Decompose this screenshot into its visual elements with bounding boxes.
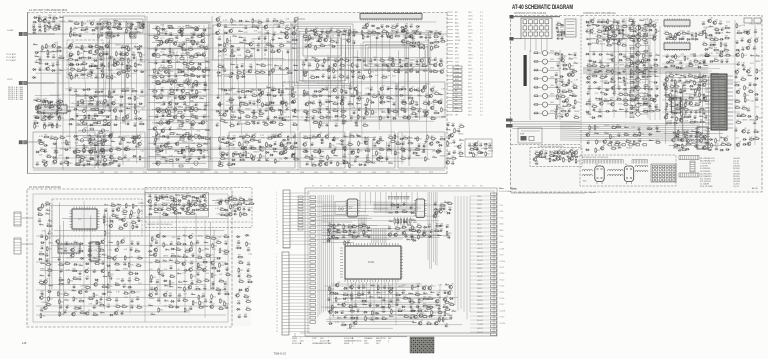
resistor R378 — [281, 118, 287, 121]
wire — [122, 135, 124, 165]
svg-text:GRY: GRY — [468, 101, 473, 103]
resistor R260 — [386, 95, 392, 98]
capacitor C46 — [100, 89, 104, 93]
diode D178 — [585, 53, 590, 55]
resistor R8 — [96, 22, 102, 25]
svg-text:P1-19: P1-19 — [500, 317, 505, 319]
resistor R534 — [693, 75, 699, 78]
node N131 label — [403, 36, 407, 38]
resistor R303 — [329, 142, 334, 148]
resistor R325 — [349, 163, 354, 169]
inductor L180 — [648, 71, 652, 73]
diode D81 — [271, 89, 276, 91]
inductor L178 — [632, 62, 636, 64]
svg-text:GRN: GRN — [468, 58, 473, 60]
capacitor C131 — [256, 48, 260, 52]
resistor R16 — [72, 33, 78, 36]
inductor L133 — [241, 101, 245, 103]
capacitor C165 — [320, 29, 324, 33]
node N133 label — [108, 62, 112, 64]
resistor R152 — [266, 42, 272, 45]
inductor L191 — [680, 75, 684, 77]
inductor L162 — [573, 87, 577, 89]
capacitor C70 — [102, 163, 106, 167]
wire — [587, 24, 656, 26]
resistor R257 — [350, 94, 356, 97]
node N143 label — [343, 110, 347, 112]
svg-text:P15: P15 — [432, 186, 435, 188]
node N52 label — [190, 128, 194, 130]
node N46 label — [190, 101, 194, 103]
inductor L121 — [93, 54, 97, 56]
resistor R38 — [126, 64, 131, 70]
diode D102 — [415, 71, 420, 73]
svg-text:AT-40: AT-40 — [752, 187, 758, 190]
inductor L76 — [225, 93, 229, 95]
svg-text:15. PLL UNIT (X50-2070-00): 15. PLL UNIT (X50-2070-00) — [29, 186, 61, 189]
node N74 label — [219, 89, 223, 91]
resistor R379 — [356, 90, 361, 96]
diode D52 — [65, 157, 70, 159]
svg-text:T568-N 2/2: T568-N 2/2 — [274, 353, 287, 356]
svg-text:BLK: BLK — [468, 65, 472, 67]
transistor Q86 — [419, 57, 424, 62]
svg-text:GRD2: GRD2 — [477, 204, 482, 206]
resistor R46 — [105, 75, 111, 78]
diode D184 — [618, 59, 623, 61]
inductor L5 — [137, 21, 141, 23]
capacitor C390 — [665, 54, 669, 58]
resistor R399 — [402, 136, 408, 139]
svg-text:LCD18: LCD18 — [500, 310, 506, 312]
resistor R388 — [320, 121, 325, 127]
resistor R415 — [112, 159, 118, 162]
transistor Q85 — [307, 43, 312, 48]
resistor R491 — [637, 69, 643, 72]
node N83 label — [293, 136, 297, 138]
capacitor C129 — [256, 43, 260, 47]
transistor Q23 — [137, 141, 142, 146]
transformer T12 — [114, 22, 120, 28]
capacitor C386 — [690, 33, 694, 37]
svg-text:P2-17: P2-17 — [500, 304, 505, 306]
resistor R353 — [102, 73, 107, 79]
svg-text:20: 20 — [276, 315, 278, 317]
transistor Q93 — [409, 67, 414, 72]
svg-text:SQ: SQ — [455, 93, 458, 95]
transistor Q167 relay driver — [533, 102, 560, 107]
transistor Q149 — [376, 156, 381, 161]
resistor R306 — [395, 141, 401, 144]
wire run — [41, 69, 431, 71]
transistor Q76 — [279, 150, 284, 155]
capacitor C324 — [452, 140, 456, 144]
resistor R433 — [562, 63, 568, 66]
node filter section 8 — [152, 118, 206, 129]
capacitor C30 — [120, 45, 124, 49]
node N61 label — [231, 25, 236, 27]
svg-text:P6: P6 — [360, 186, 362, 188]
connector RX output — [510, 37, 514, 41]
resistor R318 — [327, 155, 332, 161]
svg-text:7: 7 — [276, 273, 277, 275]
inductor L145 — [260, 146, 264, 148]
capacitor C22 — [116, 33, 120, 37]
diode D78 — [223, 89, 228, 91]
resistor R482 — [586, 63, 592, 66]
capacitor C374 — [643, 86, 647, 90]
resistor R472 — [642, 34, 648, 37]
wire — [401, 132, 403, 164]
diode D145 — [269, 121, 274, 123]
node N31 label — [75, 143, 79, 145]
capacitor C209 — [325, 107, 329, 111]
node N45 label — [156, 103, 161, 105]
inductor L120 — [122, 46, 126, 48]
node relay matrix block — [521, 18, 552, 39]
diode D89 — [273, 116, 278, 118]
svg-text:22: 22 — [276, 321, 278, 323]
node IF stack column — [76, 96, 111, 165]
svg-text:TO J3 ANT: TO J3 ANT — [6, 59, 17, 62]
wire partition — [297, 16, 299, 170]
transistor Q38 — [186, 80, 191, 85]
capacitor C29 — [38, 67, 42, 71]
resistor R398 — [390, 139, 396, 142]
resistor R240 — [421, 63, 427, 66]
diode D143 — [278, 109, 283, 111]
transistor Q191 — [634, 96, 639, 101]
diode D205 — [598, 115, 603, 117]
node N116 label — [348, 121, 352, 123]
inductor L160 — [574, 62, 578, 64]
transistor Q70 — [222, 112, 227, 117]
node N7 label — [91, 33, 95, 35]
svg-text:11: 11 — [276, 224, 278, 226]
capacitor C326 — [452, 150, 456, 154]
resistor R309 — [313, 149, 319, 152]
capacitor C316 — [472, 143, 476, 147]
resistor R47 — [35, 98, 41, 101]
node N173 label — [614, 64, 618, 66]
svg-text:7: 7 — [276, 211, 277, 213]
capacitor C253 — [395, 23, 399, 27]
resistor R189 — [278, 122, 284, 125]
resistor R486 — [653, 63, 659, 66]
resistor R166 — [287, 71, 293, 74]
resistor R442 — [561, 90, 567, 93]
diode D8 — [35, 52, 40, 54]
node N84 label — [232, 141, 236, 143]
capacitor C329 — [556, 29, 560, 33]
resistor R315 — [414, 147, 420, 150]
inductor L50 — [204, 143, 208, 145]
node N48 label — [196, 109, 201, 111]
wire run — [44, 119, 418, 121]
node N47 label — [155, 109, 160, 111]
node N81 label — [285, 121, 289, 123]
wire — [223, 29, 225, 115]
svg-text:GRY: GRY — [468, 79, 473, 81]
resistor R364 — [165, 120, 171, 123]
capacitor C95 — [162, 102, 166, 106]
resistor R75 — [115, 115, 120, 121]
capacitor C392 — [679, 61, 683, 65]
capacitor C229 — [401, 142, 405, 146]
wire drop — [601, 18, 603, 118]
svg-text:DIM18: DIM18 — [477, 268, 482, 270]
resistor R462 — [622, 24, 628, 27]
resistor R143 — [252, 18, 257, 24]
transistor Q94 — [439, 68, 444, 73]
resistor R282 — [441, 107, 446, 113]
transformer T13 — [126, 22, 132, 28]
resistor R381 — [367, 98, 372, 104]
transistor Q69 — [229, 105, 234, 110]
transistor Q175 — [610, 23, 615, 28]
diode D154 — [282, 139, 287, 141]
wire — [224, 119, 293, 121]
capacitor C196 — [351, 74, 355, 78]
inductor L168 — [629, 28, 633, 30]
transistor Q200 driver — [629, 50, 648, 57]
diode D11 — [51, 69, 56, 71]
capacitor C275 — [179, 135, 183, 139]
inductor L153 — [488, 147, 492, 149]
transistor Q11 — [94, 48, 99, 53]
diode D159 — [231, 163, 236, 165]
inductor L68 — [274, 65, 278, 67]
transistor Q135 — [178, 94, 183, 99]
transistor Q155 — [100, 147, 105, 152]
wire — [614, 29, 616, 96]
wire — [230, 36, 232, 128]
node scan tint B — [511, 16, 761, 191]
resistor R201 — [240, 145, 246, 148]
capacitor C270 — [180, 53, 184, 57]
transistor Q102 — [379, 94, 384, 99]
diode D167 — [479, 152, 484, 154]
resistor R298 — [394, 134, 399, 140]
resistor R385 — [387, 108, 392, 114]
resistor R391 — [270, 135, 276, 138]
diode D17 — [87, 57, 92, 59]
resistor R455 — [607, 19, 612, 25]
capacitor C364 — [649, 65, 653, 69]
capacitor C91 — [153, 94, 157, 98]
capacitor C355 — [592, 52, 596, 56]
transistor Q197 driver — [629, 25, 648, 32]
capacitor C290 — [305, 111, 309, 115]
node N29 label — [126, 136, 130, 138]
wire — [267, 33, 269, 121]
resistor R359 — [155, 81, 161, 84]
transistor Q152 — [132, 135, 137, 140]
resistor R310 — [319, 148, 324, 154]
transistor Q33 — [204, 45, 209, 50]
transistor Q79 — [312, 28, 317, 33]
svg-text:LED21: LED21 — [477, 280, 483, 282]
capacitor C213 — [311, 116, 315, 120]
resistor R154 — [231, 48, 236, 54]
transistor Q16 — [113, 107, 118, 112]
capacitor C136 — [235, 65, 239, 69]
node N157 label — [558, 68, 562, 70]
node block T13 — [398, 132, 445, 168]
node N120 label — [432, 151, 437, 153]
capacitor C96 — [183, 102, 187, 106]
inductor L13 — [35, 61, 39, 63]
capacitor C69 — [82, 163, 86, 167]
diode D132 — [386, 36, 391, 38]
IC U2 logic — [608, 29, 623, 41]
capacitor C23 — [38, 57, 42, 61]
resistor R450 — [560, 109, 566, 112]
capacitor C180 — [433, 57, 437, 61]
IC U4 driver array — [664, 42, 690, 52]
svg-text:P2-15: P2-15 — [500, 292, 505, 294]
transistor Q180 — [604, 26, 609, 31]
inductor L71 — [294, 69, 298, 71]
diode D35 — [67, 110, 72, 112]
wire — [408, 136, 410, 166]
resistor R1 — [52, 16, 58, 19]
svg-text:11: 11 — [276, 286, 278, 288]
wire — [303, 95, 430, 97]
capacitor C16 — [100, 27, 104, 31]
node antenna symbol — [294, 17, 305, 21]
transistor Q34 — [201, 51, 206, 56]
svg-text:P2: P2 — [328, 186, 330, 188]
diode D206 — [678, 38, 683, 40]
node block T relay drv — [565, 19, 576, 37]
resistor R277 — [388, 108, 393, 114]
transistor Q186 — [611, 57, 616, 62]
resistor R217 — [349, 29, 354, 35]
inductor L175 — [612, 43, 616, 45]
resistor R89 — [93, 143, 99, 146]
resistor R446 — [571, 94, 577, 97]
node N89 label — [253, 151, 258, 153]
inductor L93 — [364, 64, 368, 66]
inductor L101 — [439, 93, 443, 95]
resistor R56 — [48, 115, 54, 118]
inductor L113 — [433, 156, 437, 158]
inductor L139 — [388, 87, 392, 89]
resistor R156 — [270, 49, 276, 52]
svg-text:1: 1 — [276, 254, 277, 256]
resistor R305 — [358, 141, 363, 147]
capacitor C241 — [407, 156, 411, 160]
resistor R94 — [46, 154, 52, 157]
resistor R222 — [329, 39, 335, 42]
capacitor C56 — [75, 114, 79, 118]
capacitor C98 — [204, 103, 208, 107]
node N2 label — [38, 32, 42, 34]
resistor R290 — [312, 120, 318, 123]
capacitor C60 — [102, 134, 106, 138]
resistor R268 — [401, 101, 407, 104]
capacitor C119 — [256, 25, 260, 29]
node N127 label — [403, 35, 407, 37]
inductor L4 — [114, 20, 118, 22]
wire — [270, 40, 272, 106]
diode D56 — [86, 163, 91, 165]
capacitor C156 — [256, 121, 260, 125]
transistor Q101 — [430, 87, 435, 92]
diode D136 — [202, 29, 207, 31]
wire — [77, 57, 130, 59]
transistor Q84 — [346, 37, 351, 42]
diode D164 — [54, 151, 59, 153]
capacitor C384 — [624, 109, 628, 113]
diode D36 — [73, 108, 78, 110]
capacitor C346 — [628, 25, 632, 29]
wire — [97, 27, 99, 111]
capacitor C399 — [678, 78, 682, 82]
inductor L177 — [656, 54, 660, 56]
capacitor C72 — [155, 26, 159, 30]
svg-text:12: 12 — [276, 289, 278, 291]
capacitor C117 — [224, 24, 228, 28]
capacitor C111 — [183, 155, 187, 159]
resistor R92 — [103, 149, 108, 155]
resistor R211 — [293, 157, 299, 160]
diode D202 — [629, 111, 634, 113]
resistor R357 — [199, 44, 205, 47]
diode D200 — [585, 111, 590, 113]
capacitor C245 — [413, 31, 417, 35]
wire — [90, 136, 92, 159]
capacitor C10 — [38, 28, 42, 32]
resistor R495 — [604, 81, 610, 84]
diode D144 — [291, 109, 296, 111]
resistor R395 — [251, 154, 256, 160]
capacitor C158 — [232, 136, 236, 140]
resistor R81 — [53, 136, 59, 139]
diode D95 — [231, 159, 236, 161]
transistor Q17 — [125, 113, 130, 118]
wire — [594, 111, 655, 113]
inductor L30 — [127, 142, 131, 144]
resistor R224 — [319, 43, 325, 46]
node block T6 — [265, 25, 298, 60]
resistor R131 — [169, 109, 174, 115]
capacitor C357 — [623, 54, 627, 58]
diode D153 — [230, 138, 235, 140]
capacitor C340 — [567, 109, 571, 113]
node N13 label — [102, 74, 106, 76]
resistor R251 — [381, 75, 387, 78]
transistor Q37 — [173, 78, 178, 83]
capacitor C352 — [612, 37, 616, 41]
node bottom text row A — [100, 172, 433, 174]
node N163 label — [638, 29, 642, 31]
inductor L42 — [177, 68, 181, 70]
node N126 label — [425, 30, 430, 32]
node block T11 — [300, 132, 345, 168]
resistor R453 — [597, 20, 603, 23]
capacitor C21 — [112, 34, 116, 38]
diode D20 — [75, 63, 80, 65]
resistor R473 — [597, 38, 602, 44]
node N59 label — [223, 20, 227, 22]
resistor R231 — [387, 57, 393, 60]
diode D124 — [412, 45, 417, 47]
node N93 label — [342, 39, 347, 41]
wire drop — [647, 18, 649, 118]
resistor R229 — [356, 58, 362, 61]
